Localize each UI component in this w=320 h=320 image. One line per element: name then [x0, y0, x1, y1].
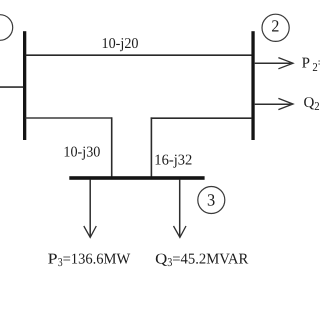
svg-text:10-j30: 10-j30	[63, 145, 100, 161]
svg-text:2: 2	[314, 99, 319, 113]
arrow P2 (real power out of bus 2)	[255, 62, 291, 64]
svg-text:Q: Q	[155, 251, 167, 267]
arrow Q2 (reactive power out of bus 2)	[255, 103, 291, 105]
svg-text:=136.6MW: =136.6MW	[63, 251, 131, 267]
svg-text:Q: Q	[304, 95, 315, 111]
wire (line 1-2)	[26, 54, 252, 56]
wire (line 1-3, vertical drop to bus 3)	[111, 117, 113, 176]
wire (line 2-3, vertical drop to bus 3)	[150, 117, 152, 176]
svg-text:P: P	[302, 56, 310, 72]
svg-text:P: P	[48, 251, 58, 267]
node 2 (bus 2 label circle)	[262, 14, 289, 41]
bus 1 (vertical busbar)	[23, 31, 26, 140]
svg-text:10-j20: 10-j20	[102, 36, 139, 52]
svg-text:16-j32: 16-j32	[154, 152, 192, 168]
wire (line 1-3, horizontal run from bus 1)	[26, 117, 113, 119]
node 1 (bus 1 label circle, clipped at left edge)	[0, 15, 13, 41]
load arrow Q3 (reactive load at bus 3)	[179, 179, 181, 236]
bus 3 (horizontal busbar)	[69, 176, 204, 180]
node 3 (bus 3 label circle)	[198, 187, 225, 214]
load arrow P3 (real load at bus 3)	[89, 179, 91, 236]
wire (generator lead into bus 1)	[0, 86, 23, 88]
svg-text:=45.2MVAR: =45.2MVAR	[172, 251, 248, 267]
bus 2 (vertical busbar)	[251, 31, 254, 140]
svg-text:2: 2	[271, 16, 279, 35]
wire (line 2-3, horizontal run from bus 2)	[151, 117, 252, 119]
svg-text:3: 3	[207, 191, 215, 210]
